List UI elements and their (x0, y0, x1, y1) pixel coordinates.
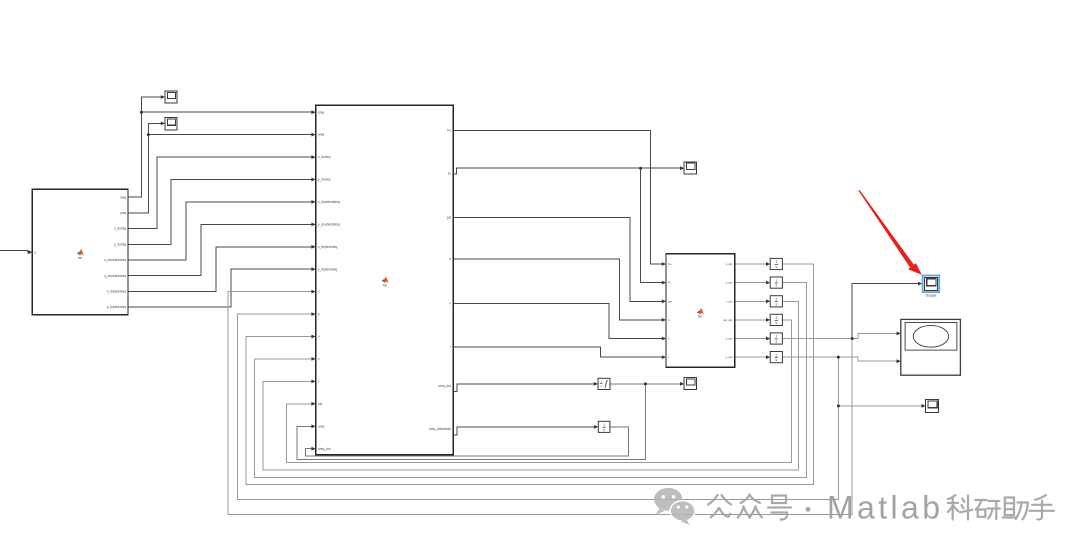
svg-text:x_doubledotreq: x_doubledotreq (318, 200, 340, 204)
svg-text:fcn: fcn (78, 256, 82, 260)
wire v_dot from fcn2 to integrator 2 (735, 282, 770, 284)
svg-text:y_doubledotreq: y_doubledotreq (104, 274, 126, 278)
svg-text:fcn: fcn (698, 315, 702, 319)
svg-text:ureq_dot: ureq_dot (438, 384, 451, 388)
svg-text:x_dotreq: x_dotreq (318, 155, 331, 159)
wire Fu from big block to fcn2 input 1 (453, 130, 665, 264)
svg-text:1: 1 (775, 335, 777, 339)
svg-text:r: r (668, 355, 669, 359)
wire x_doubledotreq from left block output 5 to big block input 5 (128, 202, 315, 260)
svg-text:ureq: ureq (318, 424, 325, 428)
wire y_tripledotreq from left block output 8 to big block input 8 (128, 269, 315, 307)
wire y_dotreq from left block output 4 to big block input 4 (128, 180, 315, 245)
integrator 1/s block 2 (770, 277, 782, 288)
MATLAB Function block fcn (controller, big block) (316, 105, 454, 455)
wire y_dot from fcn2 to integrator 6 (735, 356, 770, 358)
svg-text:yreq: yreq (318, 133, 324, 137)
svg-text:y_tripledotreq: y_tripledotreq (318, 267, 338, 271)
watermark text 公众号 · Matlab科研助手 (708, 495, 811, 520)
svg-text:y_dotreq: y_dotreq (318, 178, 331, 182)
svg-text:x_doubledotreq: x_doubledotreq (104, 258, 126, 262)
wire r from big block to fcn2 input 6 (453, 347, 665, 357)
svg-text:1: 1 (775, 353, 777, 357)
integrator 1/s block 5 (770, 333, 782, 344)
svg-text:u_dot: u_dot (725, 262, 732, 266)
watermark WeChat logo (654, 488, 695, 525)
wire xreq from left block output 1 to big block input 1 and scope (128, 97, 164, 197)
svg-text:y_tripledotreq: y_tripledotreq (107, 305, 127, 309)
svg-text:psi_dot: psi_dot (723, 318, 733, 322)
wire x_dotreq from left block output 3 to big block input 3 (128, 157, 315, 229)
svg-text:Fu: Fu (447, 128, 451, 132)
scope block C (Fr display) (684, 162, 696, 174)
svg-text:x_tripledotreq: x_tripledotreq (107, 290, 127, 294)
MATLAB Function block fcn2 (dynamics) (666, 254, 735, 367)
wire psi feedback from integrator 4 to big block (286, 320, 791, 463)
svg-text:u: u (318, 335, 320, 339)
scope block S1 (top left) (165, 91, 177, 103)
wire x from integrator 5 to XY graph, scope and feedback (782, 333, 899, 338)
wire yreq from left block output 2 to big block input 2 and scope (128, 123, 164, 212)
red annotation arrow pointing to Scope (859, 190, 922, 275)
svg-text:x_dot: x_dot (726, 337, 733, 341)
wire u from big block to fcn2 input 4 (453, 259, 665, 320)
svg-text:xreq: xreq (120, 195, 126, 199)
svg-text:1: 1 (775, 279, 777, 283)
svg-text:1: 1 (775, 298, 777, 302)
integrator 1/s block 4 (770, 314, 782, 325)
svg-text:y_doubledotreq: y_doubledotreq (318, 223, 340, 227)
display block E (bottom right) (926, 400, 939, 413)
svg-text:Scope: Scope (926, 293, 937, 297)
XY Graph block (901, 319, 961, 375)
svg-text:1: 1 (775, 260, 777, 264)
wire Fr from big block to fcn2 input 2 and scope C (453, 168, 683, 174)
svg-text:fcn: fcn (383, 283, 387, 287)
svg-text:Matlab: Matlab (827, 490, 943, 526)
wire u feedback from integrator 1 to big block (246, 264, 813, 484)
svg-text:x_tripledotreq: x_tripledotreq (318, 245, 338, 249)
svg-text:psi: psi (668, 299, 672, 303)
wire u_dot from fcn2 to integrator 1 (735, 263, 770, 265)
svg-text:u: u (449, 257, 451, 261)
wire saturation integrator output to scope D and feedback to ureq input (610, 383, 683, 385)
wire v from big block to fcn2 input 5 (453, 304, 665, 339)
svg-text:yreq: yreq (120, 211, 126, 215)
svg-text:y_dot: y_dot (726, 355, 733, 359)
svg-text:xreq: xreq (318, 110, 324, 114)
svg-text:Fu: Fu (668, 262, 672, 266)
wire psi from big block to fcn2 input 3 (453, 217, 665, 301)
integrator B block 1/s (598, 421, 610, 432)
svg-text:1: 1 (603, 423, 605, 427)
svg-text:Fr: Fr (668, 281, 671, 285)
svg-text:ureq_dot: ureq_dot (318, 447, 331, 451)
wire psi_dot from fcn2 to integrator 4 (735, 319, 770, 321)
saturation integrator block (1/s with limit) (598, 378, 610, 389)
wire x_dot from fcn2 to integrator 5 (735, 338, 770, 340)
MATLAB Function block fcn1 (reference trajectory) (32, 189, 128, 315)
svg-text:ureq_doubledot: ureq_doubledot (429, 427, 451, 431)
wire y_doubledotreq from left block output 6 to big block input 6 (128, 224, 315, 275)
svg-text:x_dotreq: x_dotreq (114, 227, 127, 231)
wire input u into left fcn block (0, 251, 31, 253)
wire ureq_doubledot from big block output 8 to integrator B (453, 427, 597, 435)
wire ureq_dot from big block output 7 to saturation integrator (453, 384, 597, 391)
integrator 1/s block 3 (770, 296, 782, 307)
scope block D (sat integrator display) (684, 378, 696, 390)
wire v feedback from integrator 2 to big block (255, 283, 807, 478)
svg-text:psi: psi (318, 402, 322, 406)
svg-text:1: 1 (775, 316, 777, 320)
wire y from integrator 6 to XY graph, display and feedback (782, 357, 899, 361)
wire x_tripledotreq from left block output 7 to big block input 7 (128, 247, 315, 292)
selected Scope block with blue highlight (923, 276, 940, 293)
integrator 1/s block 1 (770, 258, 782, 269)
svg-text:y_dotreq: y_dotreq (114, 242, 127, 246)
wire integrator B output feedback to ureq_dot input (306, 427, 629, 456)
integrator 1/s block 6 (770, 352, 782, 363)
svg-text:r_dot: r_dot (726, 299, 733, 303)
wire r feedback from integrator 3 to big block (263, 301, 798, 470)
svg-text:psi: psi (447, 215, 451, 219)
scope block S2 (top left lower) (165, 118, 177, 130)
wire r_dot from fcn2 to integrator 3 (735, 300, 770, 302)
svg-text:v_dot: v_dot (726, 281, 733, 285)
svg-text:u: u (35, 250, 37, 254)
